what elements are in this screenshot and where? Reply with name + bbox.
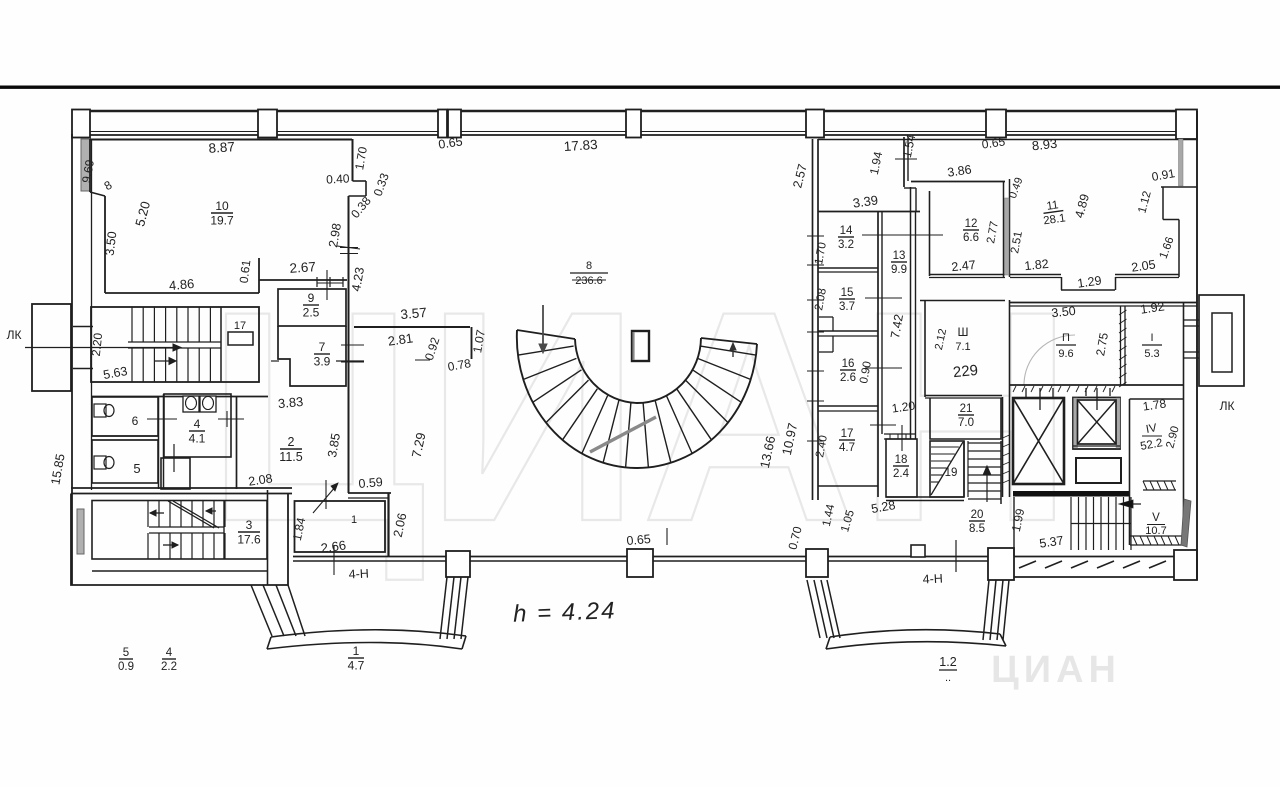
right porch left flight	[807, 580, 820, 638]
svg-text:7.0: 7.0	[958, 417, 974, 429]
room 4 sinks	[183, 396, 199, 412]
upper stair block outline	[91, 307, 259, 382]
svg-text:2.6: 2.6	[840, 372, 856, 384]
top band right corner pillar	[1176, 110, 1197, 140]
tick x327 y270-300	[326, 270, 328, 300]
upper stair treads	[131, 307, 133, 342]
door ticks on x348 at y345	[341, 344, 364, 346]
svg-text:V: V	[1152, 512, 1160, 524]
bottom wall segment	[653, 556, 806, 558]
block3 stair treads	[147, 501, 149, 527]
svg-text:0.65: 0.65	[626, 532, 652, 548]
curved stair entry arrow	[542, 305, 544, 348]
terrace right end block	[1174, 550, 1197, 580]
room 17 label	[839, 428, 855, 454]
svg-text:6.6: 6.6	[963, 232, 979, 244]
svg-text:0.9: 0.9	[118, 661, 134, 673]
corridor wall x472	[471, 327, 473, 359]
hall right wall ticks	[807, 235, 824, 237]
block3 outline	[71, 494, 288, 586]
shaft jog b	[365, 181, 367, 196]
ticks above elevators	[1025, 388, 1027, 398]
svg-text:11.5: 11.5	[279, 450, 302, 464]
elevator2 gray sides	[1074, 398, 1078, 448]
room10 left wall	[104, 196, 106, 293]
svg-text:2.47: 2.47	[951, 258, 977, 274]
wall y488 a	[71, 487, 292, 489]
elevator2 outer	[1073, 398, 1120, 450]
top horizontal rule	[0, 86, 1280, 89]
svg-text:10.7: 10.7	[1145, 525, 1166, 537]
block3 arrow small	[206, 510, 216, 512]
bottom block D	[988, 548, 1014, 580]
room 9 label	[303, 291, 320, 319]
top wall under band rooms11	[818, 139, 1197, 141]
label 4/2.2 bottom-left	[161, 647, 177, 673]
tick across x906	[895, 158, 917, 160]
tick x956 bottom wall	[955, 540, 957, 572]
svg-text:21: 21	[960, 403, 973, 415]
left wall gray column upper	[81, 139, 90, 191]
small stair right wall	[1000, 441, 1002, 504]
div 16/17	[818, 405, 878, 407]
svg-text:4: 4	[194, 417, 201, 431]
corridor leader arrow	[313, 486, 336, 513]
svg-text:1.2: 1.2	[939, 655, 956, 669]
room 5 toilet	[94, 456, 106, 469]
hatched wall IV top	[1143, 480, 1176, 482]
svg-text:9.9: 9.9	[891, 264, 907, 276]
room 4 box	[164, 394, 231, 457]
room11 bottom wall	[1010, 274, 1061, 276]
small rect below elevator2	[1076, 458, 1121, 483]
gray wedge	[1181, 499, 1191, 547]
svg-text:14: 14	[840, 225, 853, 237]
curved stair outer arc	[517, 330, 757, 468]
svg-text:I: I	[1150, 332, 1153, 344]
corridor13 right wall	[910, 187, 912, 439]
tick pair on x348 wall	[340, 247, 358, 249]
svg-text:4: 4	[166, 647, 173, 659]
room15 left notch	[832, 317, 834, 331]
br stair treads	[1070, 497, 1072, 550]
svg-text:19: 19	[945, 467, 958, 479]
gray fill wall 12|11	[1005, 198, 1010, 275]
svg-text:3.2: 3.2	[838, 239, 854, 251]
svg-text:15: 15	[841, 287, 854, 299]
top junction wall x906	[903, 137, 905, 187]
svg-text:5: 5	[123, 647, 129, 659]
wall between 6 and 5	[92, 435, 158, 437]
wc right wall double	[158, 397, 160, 489]
hall left wall x348	[348, 196, 350, 493]
small stair arrow	[986, 470, 988, 502]
svg-text:5: 5	[133, 461, 140, 476]
room10 bottom wall	[105, 292, 259, 294]
top band pillar 7	[986, 110, 1006, 138]
wc top wall	[91, 396, 268, 398]
left annex dim line	[25, 347, 176, 349]
tick room7 right	[415, 359, 430, 361]
top band pillar 3	[438, 110, 447, 138]
svg-text:0.40: 0.40	[326, 171, 350, 186]
wall x259 vertical	[258, 258, 260, 293]
left outer wall	[71, 134, 73, 585]
block3 right column inner edge	[267, 490, 269, 585]
svg-text:8.93: 8.93	[1031, 136, 1058, 154]
svg-text:2.5: 2.5	[303, 305, 320, 319]
hall center column	[632, 331, 649, 361]
wall y493 b	[71, 493, 292, 495]
hatched wall V top	[1130, 535, 1183, 537]
room19 diagonal	[931, 442, 963, 495]
svg-text:7: 7	[319, 340, 326, 354]
top band pillar 6	[806, 110, 824, 138]
room 19 box	[930, 441, 964, 497]
svg-text:4.7: 4.7	[348, 658, 365, 672]
room 14 label	[838, 225, 854, 251]
curved stair inner arc	[575, 338, 701, 403]
tick x667	[666, 528, 668, 545]
svg-text:Ш: Ш	[958, 325, 969, 339]
upper stair divider x221	[220, 307, 222, 382]
room 11 label	[1041, 199, 1067, 228]
br stair left bound	[1013, 497, 1015, 556]
rooms bottom wall y385	[1010, 384, 1183, 386]
br stair landing line	[1071, 523, 1131, 525]
room 15 label	[839, 287, 855, 313]
bottom pillar A	[446, 551, 470, 577]
left porch right flight	[440, 577, 447, 639]
curved stair treads	[518, 346, 573, 355]
svg-text:17.83: 17.83	[563, 137, 598, 154]
upper stair landing lines	[128, 341, 221, 343]
room10 label 10/19.7	[210, 199, 234, 227]
top band pillar 1	[72, 110, 90, 138]
room1 right wall	[387, 493, 389, 556]
svg-text:2.20: 2.20	[89, 332, 105, 357]
svg-text:ЛК: ЛК	[7, 328, 22, 342]
left annex (LK) box	[32, 304, 71, 391]
room 5 box	[92, 440, 158, 483]
svg-text:229: 229	[952, 362, 979, 382]
curved stair end faces	[517, 330, 575, 339]
tick right of room7	[336, 360, 364, 362]
upper stair arrow	[155, 360, 172, 362]
shaft jog a	[353, 180, 367, 182]
room 7 outline	[278, 326, 346, 386]
leader line room14-12	[862, 234, 943, 236]
wall 19|stair	[963, 441, 965, 497]
svg-text:9.6: 9.6	[1058, 348, 1073, 360]
room 6 toilet	[94, 404, 106, 417]
right porch curved platform	[830, 630, 1000, 637]
room 12 label	[963, 218, 979, 244]
step 0.59 wall	[348, 492, 391, 494]
tick x326	[325, 480, 327, 509]
left porch label 1/4.7	[348, 644, 365, 672]
svg-text:1: 1	[353, 644, 360, 658]
room 21 label	[958, 403, 974, 429]
room 7 label	[314, 340, 331, 368]
gray bar right wall	[1179, 139, 1184, 186]
block3 inner room	[92, 501, 267, 560]
svg-text:7.1: 7.1	[955, 341, 970, 353]
wall hatch below y385	[1013, 386, 1016, 392]
partition hatch	[1119, 310, 1127, 315]
svg-text:ЦИАН: ЦИАН	[991, 649, 1121, 691]
svg-text:9: 9	[308, 291, 315, 305]
bottom wall segment	[828, 556, 988, 558]
room10 left jog	[90, 192, 105, 196]
svg-text:8.5: 8.5	[969, 523, 985, 535]
svg-text:4.7: 4.7	[839, 442, 855, 454]
svg-text:0.59: 0.59	[358, 475, 384, 491]
svg-text:..: ..	[945, 672, 951, 684]
svg-text:8.87: 8.87	[208, 139, 235, 156]
svg-text:3.57: 3.57	[400, 305, 427, 322]
corridor13 left wall	[881, 211, 883, 434]
svg-text:5.3: 5.3	[1144, 348, 1159, 360]
tick x174 bottom	[333, 545, 335, 575]
svg-text:3.7: 3.7	[839, 301, 855, 313]
left porch curved platform	[271, 630, 466, 637]
svg-text:17: 17	[841, 428, 854, 440]
room 21 box	[930, 398, 1001, 439]
svg-text:4.86: 4.86	[168, 276, 195, 293]
label 5/0.9 bottom-left	[118, 647, 134, 673]
svg-text:17: 17	[234, 320, 246, 332]
svg-text:12: 12	[965, 218, 978, 230]
right annex inner	[1212, 313, 1232, 372]
junction jog	[904, 187, 916, 189]
right porch right flight	[983, 580, 989, 640]
shaft jog c	[349, 195, 367, 197]
leader tick room15	[865, 297, 902, 299]
room12 top wall	[911, 181, 1005, 183]
rooms96 top wall	[1010, 302, 1197, 304]
right outer wall	[1196, 111, 1198, 580]
elevator2 bottom line	[1073, 445, 1120, 447]
big elevator shaft	[1013, 398, 1064, 484]
room17 bottom	[818, 485, 878, 487]
room10 left wall upper	[89, 139, 91, 192]
svg-text:8: 8	[586, 260, 592, 272]
block3 stringer diagonal	[168, 501, 214, 528]
roomIII top wall	[920, 300, 1005, 302]
top wall outer line	[72, 110, 1197, 112]
svg-text:1.82: 1.82	[1024, 257, 1050, 273]
room12 left wall	[929, 191, 931, 276]
roomIII bottom wall	[925, 395, 1002, 397]
right annex outer	[1199, 295, 1244, 386]
room19 hatch	[931, 446, 959, 448]
room 20 label	[969, 509, 985, 535]
leader tick room16	[865, 367, 902, 369]
room12 bottom wall	[929, 274, 1005, 276]
block3 landing lines	[149, 526, 224, 528]
svg-text:2: 2	[288, 435, 295, 449]
bottom wall segment	[293, 556, 446, 558]
rooms col right wall	[877, 211, 879, 497]
room 18 label	[893, 454, 910, 480]
svg-text:17.6: 17.6	[237, 532, 261, 546]
corridor wall y327	[354, 326, 470, 328]
corridor wall y280	[259, 279, 347, 281]
thick wall below elevators	[1013, 491, 1130, 497]
wc dim tick b	[218, 418, 244, 420]
tick x345 horizontal	[337, 246, 360, 249]
svg-text:3.50: 3.50	[1051, 304, 1077, 320]
roomIV left wall	[1129, 399, 1131, 545]
tick x902	[901, 425, 903, 451]
room 16 label	[840, 358, 856, 384]
wall x237 room2 left	[236, 397, 238, 489]
left porch left flight	[251, 585, 272, 636]
curved stair gray section line	[590, 417, 656, 452]
small square on wall	[911, 545, 925, 557]
svg-text:6: 6	[132, 414, 139, 428]
svg-text:13: 13	[893, 250, 906, 262]
svg-text:236.6: 236.6	[575, 275, 603, 287]
svg-text:h = 4.24: h = 4.24	[513, 597, 617, 628]
room 2 label	[279, 435, 302, 464]
room 4 label	[189, 417, 206, 445]
elevator2 inner	[1078, 400, 1117, 444]
svg-text:0.61: 0.61	[237, 259, 254, 284]
block top wall	[818, 211, 920, 213]
div 14/15	[818, 267, 878, 269]
small stair treads right	[968, 442, 1001, 444]
room 1 box	[295, 501, 386, 552]
top wall inner line b	[72, 134, 1197, 136]
tick left of room7	[271, 360, 279, 362]
tick below room4	[173, 444, 175, 472]
roomIV top wall	[1130, 398, 1184, 400]
hall right wall double	[812, 139, 814, 500]
svg-text:3.9: 3.9	[314, 354, 331, 368]
svg-text:3: 3	[246, 518, 253, 532]
bottom pillar B	[627, 549, 653, 577]
upper stair icon 17	[228, 332, 253, 345]
terrace band	[1014, 556, 1174, 558]
block3 inner band line	[92, 570, 267, 572]
closet below room 4	[161, 458, 190, 489]
top wall inner line a	[72, 131, 1197, 133]
hatched wall below 18/19	[886, 496, 964, 498]
svg-text:4-Н: 4-Н	[922, 571, 943, 586]
terrace dashed line	[1019, 561, 1036, 568]
elev block left wall	[1002, 397, 1004, 497]
left stub walls to annex	[73, 326, 93, 328]
corridor 13 label	[891, 250, 907, 276]
svg-text:1: 1	[351, 514, 357, 526]
room10 top wall	[90, 139, 352, 141]
roomIV right wall	[1183, 303, 1185, 545]
block3 arrow up-flight	[150, 512, 164, 514]
room 9 box	[278, 289, 346, 326]
wall rooms 12|11	[1003, 181, 1005, 277]
svg-text:20: 20	[971, 509, 984, 521]
svg-text:4.1: 4.1	[189, 431, 206, 445]
room 3 label	[237, 518, 261, 546]
block3 arrow low-flight	[163, 544, 178, 546]
svg-text:2.2: 2.2	[161, 661, 177, 673]
top band pillar 2	[258, 110, 277, 138]
partition 9.6|I	[1120, 306, 1122, 385]
roomIII left wall	[924, 300, 926, 397]
svg-text:П: П	[1062, 332, 1070, 344]
svg-text:2.67: 2.67	[289, 259, 316, 276]
svg-text:19.7: 19.7	[210, 213, 234, 227]
svg-text:4-Н: 4-Н	[348, 566, 369, 581]
br stair arrow	[1122, 503, 1141, 505]
elev left wall hatch	[1003, 435, 1010, 438]
svg-text:18: 18	[895, 454, 908, 466]
svg-text:3.50: 3.50	[103, 231, 120, 257]
svg-text:10: 10	[215, 199, 229, 213]
wc dim tick a	[147, 418, 177, 420]
wall x352 upper	[352, 139, 354, 181]
bottom pillar C	[806, 549, 828, 577]
svg-text:2.4: 2.4	[893, 468, 910, 480]
top band pillar 5	[626, 110, 641, 138]
door ticks wall y280	[316, 277, 318, 287]
right annex stubs	[1184, 319, 1199, 321]
left wall gray column lower	[77, 509, 84, 554]
svg-text:ЛК: ЛК	[1220, 399, 1235, 413]
top band pillar 4	[448, 110, 461, 138]
corridor13 door wall	[884, 433, 916, 435]
room 6 box	[92, 397, 158, 436]
block3 divider x224	[223, 501, 225, 559]
room16 left notch	[832, 336, 834, 352]
left inner wall line	[91, 139, 93, 490]
bottom wall segment	[470, 556, 627, 558]
svg-text:16: 16	[842, 358, 855, 370]
room11 right notch	[1161, 186, 1197, 188]
curved stair small arrow right	[732, 346, 734, 357]
room 9.6 door arc	[1024, 335, 1075, 385]
div 15/16	[818, 330, 878, 332]
room 18 box	[886, 439, 917, 497]
svg-text:3.83: 3.83	[277, 394, 304, 411]
